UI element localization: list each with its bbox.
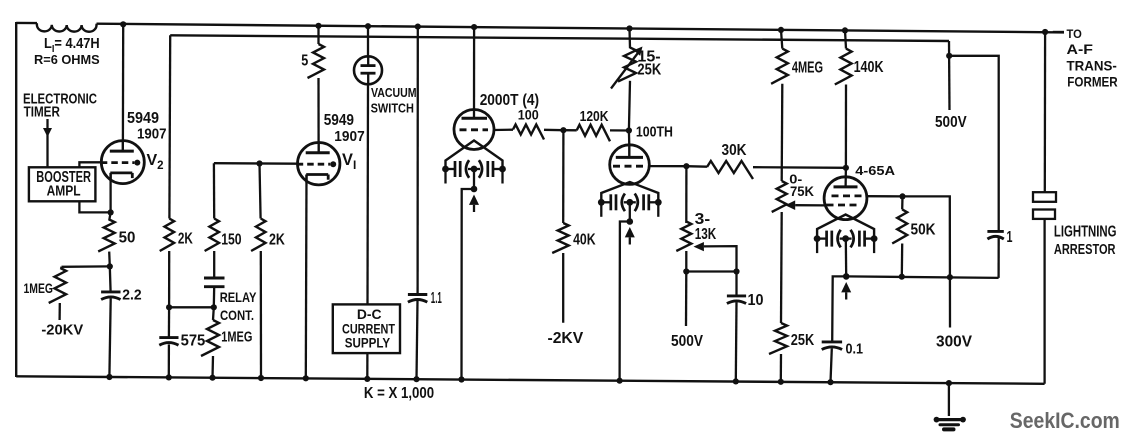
- resistor 100 grid stopper: [494, 125, 563, 140]
- resistor 150: [205, 219, 219, 252]
- wire 1.1 cap lead: [416, 27, 418, 295]
- label 2.2: [122, 286, 141, 303]
- svg-text:2K: 2K: [178, 231, 193, 248]
- wire bottom ground bus: [16, 376, 1044, 384]
- label V2: [147, 152, 164, 172]
- resistor 120K: [563, 125, 629, 142]
- label L1 = 4.47H: [44, 36, 100, 55]
- wire filament tap to 0.1 cap: [832, 276, 846, 342]
- node junction output: [1042, 29, 1048, 35]
- svg-text:K = X 1,000: K = X 1,000: [364, 385, 434, 402]
- node bus junction x261: [258, 375, 264, 381]
- box D-C CURRENT SUPPLY: [333, 304, 400, 353]
- wire 0.1 cap to bus: [831, 349, 832, 383]
- label ELECTRONIC: [23, 91, 97, 108]
- svg-text:13K: 13K: [695, 226, 717, 243]
- filament bypass module 4-65A: [814, 230, 878, 253]
- wire screen rail to 300V drop: [903, 196, 951, 327]
- filament supply arrow 2000T: [469, 195, 479, 213]
- wire lightning arrestor top lead: [1044, 32, 1047, 192]
- wire 1.1 cap to bus: [417, 301, 418, 379]
- label 3-: [695, 211, 711, 228]
- inductor L1: [37, 23, 97, 32]
- label 50: [119, 230, 136, 247]
- resistor 4MEG: [771, 30, 788, 181]
- wire vacuum switch lead: [367, 26, 369, 56]
- wire 2000T filament center tap: [473, 169, 475, 189]
- svg-text:500V: 500V: [935, 114, 967, 131]
- resistor 50: [98, 212, 115, 266]
- node junction filament tap 2000T: [471, 186, 478, 193]
- label 100TH: [636, 125, 673, 141]
- svg-text:A-F: A-F: [1067, 42, 1093, 57]
- label 1.1: [431, 290, 442, 307]
- node bus junction x212: [209, 375, 215, 381]
- resistor 25K: [769, 323, 787, 382]
- svg-text:R=6 OHMS: R=6 OHMS: [34, 52, 100, 67]
- label 30K: [722, 142, 747, 159]
- wire 500V bus (line 2): [170, 35, 949, 41]
- resistor 5: [308, 26, 325, 143]
- node cathode junction: [108, 209, 114, 215]
- resistor 3-13K variable: [676, 222, 691, 272]
- node bus junction x461: [458, 376, 464, 382]
- wire 150 chain down: [213, 163, 216, 278]
- label TIMER: [24, 103, 60, 120]
- svg-text:120K: 120K: [580, 108, 609, 125]
- svg-text:150: 150: [221, 232, 241, 249]
- capacitor 2.2: [101, 292, 120, 300]
- label 4-65A: [855, 163, 895, 178]
- wire 30K rail: [686, 166, 846, 168]
- node junction 3-13K bottom: [683, 268, 689, 274]
- node bus junction x780: [778, 379, 784, 385]
- label 150: [221, 232, 241, 249]
- filament bypass module 2000T: [442, 160, 506, 183]
- node junction 50K top: [899, 193, 905, 199]
- node junction 500V branch: [946, 53, 952, 59]
- node junction relay: [211, 304, 217, 310]
- capacitor 575: [159, 338, 178, 346]
- svg-text:1.1: 1.1: [431, 290, 442, 307]
- node bus junction x619: [617, 378, 623, 384]
- wire vacuum switch to DC supply box: [366, 84, 369, 304]
- capacitor relay contact: [204, 278, 225, 307]
- filament supply arrow 4-65A: [841, 282, 851, 300]
- label 5949 (V1): [324, 112, 354, 129]
- svg-text:1907: 1907: [334, 129, 364, 145]
- label 4MEG: [792, 60, 823, 77]
- resistor 1MEG bias: [49, 267, 66, 320]
- wire 3-13K bottom link: [686, 270, 736, 272]
- label A-F: [1067, 42, 1093, 57]
- node bus junction x735: [733, 378, 739, 384]
- node junction 120K/15-25K/anode: [626, 127, 632, 133]
- node junction 2000T anode top: [471, 24, 477, 30]
- label ARRESTOR: [1054, 242, 1116, 258]
- svg-text:AMPL: AMPL: [47, 182, 81, 199]
- node junction resistor 5 top: [315, 23, 321, 29]
- svg-text:30K: 30K: [722, 142, 747, 159]
- node junction 50 / 1MEG / 2.2: [107, 263, 113, 269]
- label TO: [1067, 27, 1083, 41]
- svg-text:TO: TO: [1067, 27, 1083, 41]
- svg-text:CONT.: CONT.: [220, 307, 254, 323]
- wire V1 cathode to bus: [305, 175, 308, 379]
- label 1MEG (relay): [221, 329, 252, 346]
- wiper 0-75K: [785, 200, 825, 210]
- svg-text:VACUUM: VACUUM: [371, 86, 417, 100]
- wire booster box bottom to cathode node: [79, 201, 110, 212]
- capacitor 10: [727, 296, 746, 304]
- wire 2.2 cap top: [109, 266, 112, 292]
- tube V2 triode: [101, 141, 145, 184]
- label CONT.: [220, 307, 254, 323]
- svg-text:TIMER: TIMER: [24, 103, 60, 120]
- wire 100TH anode lead: [628, 131, 631, 147]
- wire lightning arrestor bottom lead: [1043, 219, 1045, 384]
- node bus junction x169: [166, 374, 172, 380]
- svg-text:TRANS-: TRANS-: [1067, 58, 1118, 73]
- svg-text:500V: 500V: [671, 333, 703, 350]
- label 1907 (V1): [334, 129, 364, 145]
- label 5: [301, 52, 308, 69]
- svg-text:100TH: 100TH: [636, 125, 673, 141]
- svg-text:-2KV: -2KV: [548, 330, 584, 347]
- label 1MEG (bias): [24, 280, 54, 296]
- wire top supply bus (plate supply line 1): [16, 23, 1064, 33]
- label FORMER: [1067, 75, 1117, 90]
- wire V1 grid rail: [214, 162, 298, 165]
- vacuum switch contacts: [361, 56, 376, 84]
- node junction wiper/10 cap: [733, 268, 739, 274]
- label 300V: [936, 334, 972, 351]
- ground symbol: [934, 383, 966, 429]
- tube V1 triode: [297, 143, 340, 185]
- label 140K: [854, 59, 884, 76]
- svg-text:75K: 75K: [790, 183, 814, 199]
- capacitor 0.1: [822, 342, 842, 350]
- wire 40K chain: [562, 130, 565, 223]
- node junction filament tap 100TH: [627, 218, 634, 225]
- filament supply arrow 100TH: [625, 227, 635, 245]
- svg-text:100: 100: [518, 108, 539, 123]
- resistor 2K (second): [251, 219, 265, 252]
- wire to 1MEG: [62, 265, 110, 268]
- svg-text:140K: 140K: [854, 59, 884, 76]
- label 100: [518, 108, 539, 123]
- label -2KV: [548, 330, 584, 347]
- label 0.1: [846, 342, 864, 358]
- node junction 100/120K/40K: [560, 127, 566, 133]
- node bus junction x306: [303, 375, 309, 381]
- capacitor 1.1: [408, 295, 427, 303]
- label V1: [342, 151, 356, 172]
- wiper 3-13K: [694, 242, 737, 272]
- resistor 50K: [892, 196, 907, 276]
- wire 2000T anode lead: [473, 27, 475, 118]
- label 1 (cap): [1007, 229, 1013, 246]
- filament V 2000T: [446, 141, 503, 170]
- label 2K (first): [178, 231, 193, 248]
- svg-text:5949: 5949: [127, 110, 159, 127]
- node junction top of V2 anode: [120, 21, 126, 27]
- resistor 1MEG (relay): [201, 307, 219, 377]
- wire timer to booster with arrow: [43, 119, 52, 168]
- filament V 4-65A: [817, 215, 874, 239]
- label TRANS-: [1067, 58, 1118, 73]
- wire 500V drop from line2: [948, 41, 951, 110]
- label 50K: [911, 221, 936, 238]
- wire output dash: [1053, 31, 1064, 33]
- resistor 140K: [835, 30, 852, 167]
- svg-text:FORMER: FORMER: [1067, 75, 1117, 90]
- wire 10 cap top lead: [735, 272, 737, 296]
- label 0-: [789, 171, 802, 186]
- svg-text:4MEG: 4MEG: [792, 60, 823, 77]
- filament V 100TH: [601, 182, 658, 202]
- label 40K: [573, 232, 596, 249]
- node junction 140K top: [842, 27, 848, 33]
- wire junction to 575: [168, 307, 171, 337]
- wire 3-13K to 500V terminal: [685, 272, 688, 327]
- label R = 6 OHMS: [34, 52, 100, 67]
- node bus junction x109: [106, 374, 112, 380]
- wire 100TH grid rail: [649, 165, 686, 167]
- node junction 2K/575/relay wire: [166, 304, 172, 310]
- svg-text:1MEG: 1MEG: [24, 280, 54, 296]
- svg-text:CURRENT: CURRENT: [342, 321, 396, 336]
- label AMPL: [47, 182, 81, 199]
- node junction vacuum switch top: [365, 23, 371, 29]
- label SUPPLY: [345, 336, 390, 351]
- wire relay junction link: [169, 306, 214, 308]
- label 75K: [790, 183, 814, 199]
- svg-text:575: 575: [181, 333, 206, 350]
- wire 100TH filament center tap: [629, 202, 631, 221]
- resistor 2K (first): [160, 219, 174, 252]
- wire 3-13K top lead: [685, 166, 687, 223]
- lightning arrestor gap electrodes: [1033, 192, 1056, 219]
- node bus junction x830: [827, 379, 833, 385]
- label 25K: [791, 332, 815, 349]
- node junction 2K second top: [256, 160, 262, 166]
- label 2000T (4): [480, 92, 539, 109]
- svg-text:4-65A: 4-65A: [855, 163, 895, 178]
- label K = X 1,000: [364, 385, 434, 402]
- node bus junction x416: [413, 376, 419, 382]
- svg-text:SUPPLY: SUPPLY: [345, 336, 390, 351]
- resistor 30K: [707, 161, 753, 179]
- svg-text:50: 50: [119, 230, 136, 247]
- svg-text:25K: 25K: [791, 332, 815, 349]
- wire 10 cap to bus: [735, 302, 738, 381]
- svg-text:1: 1: [1007, 229, 1013, 246]
- label 500V (supply): [935, 114, 967, 131]
- svg-text:ARRESTOR: ARRESTOR: [1054, 242, 1116, 258]
- label -20KV: [41, 323, 83, 339]
- svg-text:5: 5: [301, 52, 308, 69]
- label 13K: [695, 226, 717, 243]
- svg-text:2K: 2K: [269, 232, 285, 249]
- wire 2K second chain: [260, 164, 262, 379]
- label 2K (second): [269, 232, 285, 249]
- svg-text:LIGHTNING: LIGHTNING: [1054, 224, 1117, 241]
- wire left border: [15, 22, 17, 377]
- wire V2 anode to top bus: [122, 24, 125, 141]
- vacuum switch envelope: [354, 56, 382, 84]
- label BOOSTER: [36, 169, 91, 186]
- svg-text:D-C: D-C: [357, 307, 382, 322]
- label RELAY: [220, 289, 257, 305]
- label LIGHTNING: [1054, 224, 1117, 241]
- wire 2.2 cap to bus: [109, 298, 110, 377]
- wire 4-65A filament center tap: [845, 239, 848, 277]
- watermark SeekIC.com: [1010, 408, 1120, 433]
- wire branch to cap 1: [949, 56, 999, 232]
- node bus junction x367: [364, 376, 370, 382]
- node junction 1.1 cap top: [415, 24, 421, 30]
- wire DC supply to bus: [366, 353, 368, 379]
- node junction 15-25K top: [626, 25, 632, 31]
- tube 4-65A tetrode: [824, 177, 867, 220]
- wire cap 1 to cathode rail: [997, 238, 999, 278]
- label 5949 (V2): [127, 110, 159, 127]
- box BOOSTER AMPL: [29, 167, 96, 201]
- svg-text:-20KV: -20KV: [41, 323, 83, 339]
- label 15-: [637, 48, 660, 65]
- svg-text:40K: 40K: [573, 232, 596, 249]
- wire 40K to -2KV terminal: [562, 253, 564, 323]
- label SWITCH: [371, 102, 414, 116]
- svg-text:0.1: 0.1: [846, 342, 864, 358]
- wire cathode return rail: [846, 276, 998, 278]
- wire filament tap to bus: [462, 189, 475, 380]
- svg-text:2.2: 2.2: [122, 286, 141, 303]
- resistor 15-25K variable: [611, 29, 643, 131]
- wire 575 to bus: [168, 344, 170, 377]
- filament bypass module 100TH: [598, 194, 662, 217]
- label 1907 (V2): [137, 126, 167, 143]
- wire 2K chain from 500V bus: [169, 35, 170, 307]
- label VACUUM: [371, 86, 417, 100]
- wire V2 grid to booster box: [79, 162, 101, 168]
- label D-C: [357, 307, 382, 322]
- node bus junction ground: [946, 380, 952, 386]
- label CURRENT: [342, 321, 396, 336]
- svg-text:50K: 50K: [911, 221, 936, 238]
- node junction grid/3-13K: [683, 163, 689, 169]
- node junction 300V rail: [947, 274, 953, 280]
- node junction filament tap 4-65A: [843, 273, 850, 280]
- svg-text:10: 10: [748, 292, 764, 309]
- capacitor 1 (coupling): [987, 231, 1003, 239]
- svg-text:SWITCH: SWITCH: [371, 102, 414, 116]
- node junction 140K/30K/anode: [843, 165, 849, 171]
- node junction 4MEG top: [778, 27, 784, 33]
- tube 100TH: [610, 145, 650, 185]
- label 500V (pot): [671, 333, 703, 350]
- svg-text:25K: 25K: [637, 62, 661, 79]
- resistor 0-75K variable: [772, 181, 787, 323]
- svg-text:2000T (4): 2000T (4): [480, 92, 539, 109]
- resistor 40K: [552, 223, 569, 253]
- wire 4-65A anode lead: [844, 168, 847, 187]
- svg-text:1907: 1907: [137, 126, 167, 143]
- label 120K: [580, 108, 609, 125]
- svg-text:1MEG: 1MEG: [221, 329, 252, 346]
- svg-text:RELAY: RELAY: [220, 289, 257, 305]
- tube 2000T: [454, 110, 494, 150]
- label 10: [748, 292, 764, 309]
- svg-text:300V: 300V: [936, 334, 972, 351]
- node junction 50K bottom: [899, 274, 905, 280]
- svg-text:SeekIC.com: SeekIC.com: [1010, 408, 1120, 433]
- wire screen grid to 50K: [867, 195, 903, 197]
- wire V2 cathode lead: [109, 173, 111, 213]
- label 575: [181, 333, 206, 350]
- label 25K: [637, 62, 661, 79]
- svg-text:5949: 5949: [324, 112, 354, 129]
- wire filament tap 100TH to bus: [620, 222, 630, 381]
